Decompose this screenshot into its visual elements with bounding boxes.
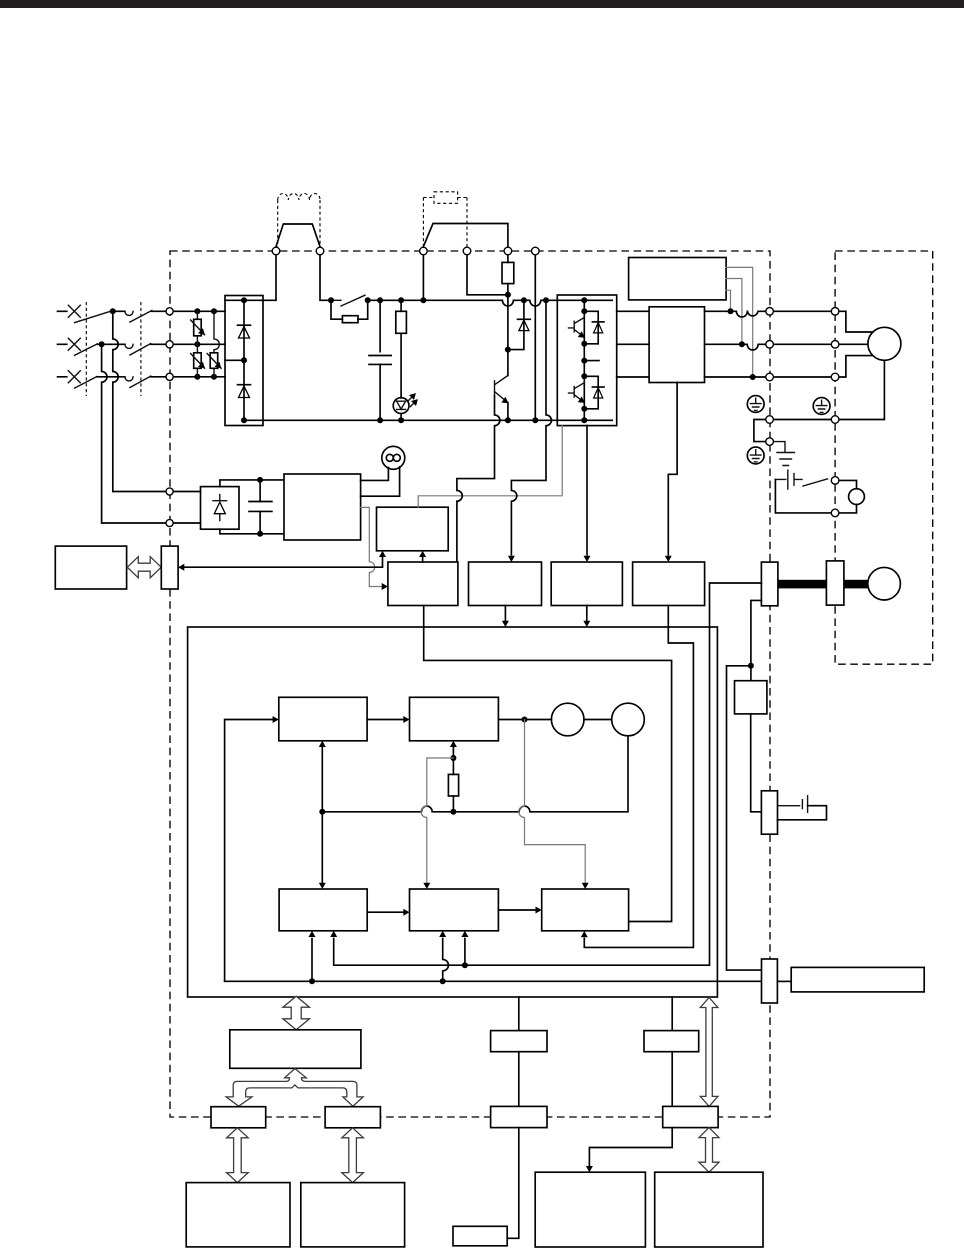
varistor Z3 (R-T, hops S): [207, 311, 221, 377]
bus arrow CN4 to operation box M: [699, 1128, 719, 1173]
wire: lamp lead 1: [361, 468, 389, 481]
wire: tap to block D (hops rail): [421, 758, 453, 883]
display driver box M1: [644, 1031, 699, 1052]
external controller box I: [186, 1183, 290, 1247]
protective earth symbol: [747, 396, 764, 413]
wire: connector to option unit: [777, 980, 791, 982]
wire: block1 output to model block E right side: [424, 606, 672, 922]
option connector CN (bottom right): [762, 959, 778, 1003]
brake terminal B2: [831, 509, 839, 517]
brake switch blade: [803, 479, 828, 486]
wire: control power tap from S (hops T): [102, 344, 167, 523]
wire: current feedback rail to CN output: [225, 980, 762, 982]
arrow: block2 output into controller: [504, 606, 506, 621]
brake terminal B1: [831, 477, 839, 485]
terminal U: [766, 308, 774, 316]
arrow: D to E: [498, 909, 535, 911]
terminal N: [532, 247, 540, 255]
drive block: voltage detection 1: [388, 562, 458, 606]
varistor Z1 (R-S): [191, 311, 205, 344]
external controller box J: [301, 1183, 405, 1247]
interface unit box F: [230, 1030, 361, 1069]
terminal L1: [166, 308, 173, 315]
terminal P1: [272, 247, 280, 255]
varistor Z2 (S-T): [191, 344, 205, 377]
wire: CN2 lower pin to junction: [727, 600, 762, 970]
arrow: block3 output into controller: [586, 606, 588, 621]
terminal V: [766, 341, 774, 349]
protective earth symbol: [747, 447, 764, 464]
wire: K1 to CN3: [518, 1052, 520, 1107]
wire: M1 to CN4: [671, 1052, 673, 1107]
wire: DB to U line: [726, 290, 730, 311]
terminal W: [766, 373, 774, 381]
inrush relay contact on + bus: [331, 295, 368, 306]
wire: rail up to block A input: [225, 720, 273, 982]
charge lamp: [382, 446, 405, 469]
multiplier circle 1: [551, 703, 584, 736]
terminal P2: [316, 247, 324, 255]
base driver / overcurrent protection box: [377, 507, 449, 551]
terminal PE (amp): [766, 416, 774, 424]
P1-P2 jumper bar: [276, 224, 320, 247]
backup battery: [778, 796, 808, 813]
IGBT power module: [557, 295, 616, 426]
node: bus voltage sense tap: [543, 297, 549, 303]
node: A output on rail: [319, 809, 325, 815]
node: R phase junction: [110, 308, 116, 314]
control block E: [542, 889, 629, 931]
wire: battery box to battery connector: [751, 714, 762, 812]
wire: bus voltage sense to detector (hops - bus, gate line): [511, 300, 551, 555]
encoder cable (amp side): [778, 580, 827, 589]
control block B: [410, 697, 499, 741]
varistor network junction dots: [194, 308, 200, 314]
page header bar: [0, 0, 964, 8]
wire: phases into terminals L1 L2 L3: [151, 311, 225, 377]
terminal L21 (control power): [166, 519, 173, 526]
IGBT T2: [569, 383, 585, 403]
wire: controller to display driver: [671, 997, 673, 1031]
wire: CN3 to external device: [507, 1128, 519, 1239]
protective earth symbol: [813, 398, 830, 415]
IGBT T1: [569, 318, 585, 338]
wire: encoder feedback rail: [334, 583, 762, 965]
bus arrow CN1A to controller I: [227, 1128, 249, 1183]
charge LED indicator: [393, 393, 418, 420]
wire: B tap to block E (hops rail): [519, 720, 585, 883]
node: DB-V junction: [739, 341, 745, 347]
control power rectifier: [201, 487, 240, 530]
terminal PE2 (amp): [766, 438, 774, 446]
node: encoder rail tap: [462, 962, 468, 968]
external options dashed boundary (right): [835, 251, 933, 664]
wire: module gate line to base driver: [418, 426, 562, 508]
wire: motor V lead: [835, 343, 868, 345]
node: rail tap D: [440, 978, 446, 984]
wire: motor earth lead: [770, 360, 885, 419]
gain resistor: [448, 758, 458, 812]
wire: motor W lead: [835, 356, 873, 377]
connector CN1B: [325, 1107, 380, 1128]
wire: U phase to terminal (hops DB drops): [705, 311, 836, 317]
servo amplifier dashed boundary: [170, 251, 770, 1117]
wire: feedback rail mid (hops two gray drops): [322, 736, 628, 812]
wire: control DC rails: [220, 480, 284, 534]
wire: V phase to terminal (hops DB drop): [705, 344, 836, 350]
node: DB-W junction: [750, 374, 756, 380]
MC contact blades: [130, 311, 152, 388]
arrow: rail branch up into B: [452, 748, 454, 759]
diode bridge rectifier: [225, 296, 263, 426]
wire: circle1 to circle2: [584, 719, 612, 721]
freewheel diode over regen transistor: [508, 297, 530, 349]
wire: A down to block C (arrowheads both ends): [321, 741, 323, 883]
switching power supply box: [284, 474, 361, 540]
wire: T phase to MC: [97, 376, 125, 378]
node: relay right: [365, 297, 371, 303]
wire: P3 terminal to + bus: [422, 255, 424, 300]
arrow: C to D: [367, 911, 403, 913]
inrush resistor bypass: [331, 300, 368, 322]
wire: lamp lead 2: [361, 467, 400, 496]
wire: battery loop: [778, 806, 827, 820]
wire: junction down to battery circuit box: [750, 666, 752, 681]
connector CN3: [491, 1106, 547, 1127]
servo motor: [868, 327, 901, 360]
wire: current detector output down: [668, 383, 677, 555]
wire: P2 down to DC bus: [320, 255, 331, 300]
terminal C: [463, 247, 471, 255]
arrow: rail into D bottom (hops encoder rail): [443, 939, 449, 982]
main smoothing capacitor: [369, 297, 391, 423]
control block A (command processing): [279, 697, 367, 741]
flyback diode D1: [584, 311, 604, 344]
terminal L2: [166, 341, 173, 348]
operation section box M: [655, 1172, 763, 1247]
control block D: [410, 889, 499, 931]
regenerative transistor Q1: [495, 350, 511, 424]
wire: module U output: [617, 310, 649, 312]
forked bus arrow to I/O connectors: [226, 1069, 363, 1107]
encoder cable (motor side): [844, 580, 868, 589]
node: DB-U junction: [728, 308, 734, 314]
terminal L3: [166, 373, 173, 380]
connector CN4: [663, 1106, 718, 1127]
wire: B output to multipliers: [498, 719, 551, 721]
wire: W phase to terminal: [705, 376, 836, 378]
wire: terminals to control rectifier: [173, 492, 200, 524]
tall bus arrow controller to CN4: [700, 998, 718, 1107]
digital interface box: [55, 546, 126, 589]
bus arrow CN1B to controller J: [342, 1128, 364, 1183]
wire: C terminal to resistor low end: [467, 255, 508, 295]
drive block: base drive: [551, 562, 622, 606]
drive block: voltage detection 2: [469, 562, 542, 606]
option reactor dashed box (P1-P2): [278, 194, 320, 248]
NFB breaker blades: [75, 311, 112, 388]
wire: brake loop left: [775, 479, 831, 513]
flyback diode D2: [584, 376, 604, 409]
arrow: encoder rail into D: [464, 939, 466, 966]
wire: N terminal drop to - bus (hops + bus): [534, 255, 536, 420]
PE jumper bracket: [754, 420, 770, 442]
display box L: [535, 1172, 645, 1247]
wire: brake coil connection: [839, 480, 857, 513]
option regenerative unit dashed box (P-C): [423, 192, 467, 247]
node: resistor bottom on rail: [450, 809, 456, 815]
node: S phase junction: [99, 341, 105, 347]
node: rail tap C: [309, 978, 315, 984]
encoder connector (motor side): [826, 561, 844, 605]
connector CN2: [761, 562, 778, 606]
multiplier circle 2: [612, 703, 645, 736]
fuse symbols (X) on supply lines: [68, 305, 80, 383]
wire: module gate stub to block3: [586, 426, 588, 555]
arrow: rail into C bottom: [311, 939, 313, 982]
module midpoint stub: [584, 360, 599, 362]
arrowheads into drive blocks: [508, 556, 515, 562]
wire: controller to CN3 chain: [518, 997, 520, 1031]
arrow: block1 to base driver: [422, 555, 424, 563]
drive block: current detection: [633, 562, 705, 606]
node: encoder splitter junction: [748, 663, 754, 669]
wire: block4 (current) output to block E bottom: [584, 606, 693, 948]
external device box (small): [453, 1226, 507, 1246]
encoder: [868, 567, 901, 600]
node: B output tap: [522, 717, 528, 723]
arrow: A to B: [367, 719, 403, 721]
wire: DB to V line: [726, 279, 742, 345]
MC gang dashed link: [140, 302, 142, 396]
wire: CN4 to display box L: [589, 1128, 672, 1166]
wire: motor U lead: [835, 311, 873, 332]
module internal DC link: [583, 300, 585, 420]
absolute position battery circuit box: [735, 681, 767, 714]
regenerative resistor (internal): [396, 297, 407, 423]
wire: three-phase supply lead-ins: [58, 311, 67, 377]
current detector box: [649, 307, 704, 383]
MC contact seats (hooks): [125, 311, 133, 381]
wire: S phase to MC: [98, 343, 125, 345]
module chain junction dots: [581, 297, 587, 303]
chassis ground: [773, 442, 794, 466]
interface bidirectional bus arrow: [127, 557, 161, 578]
control block C: [279, 889, 367, 931]
controller-interface bus arrow: [283, 996, 310, 1030]
wire: power supply to base drive enable (hops interface line): [361, 507, 382, 586]
dynamic brake circuit box: [629, 258, 727, 300]
brake power battery: [775, 470, 802, 489]
motor terminal PE: [831, 416, 839, 424]
motor terminal W: [831, 373, 839, 381]
motor terminal V: [831, 341, 839, 349]
terminal D(P3): [420, 247, 428, 255]
wire: module V output: [617, 343, 649, 345]
wire: regen transistor base drive (hops - bus and gate line): [457, 396, 500, 562]
regenerative brake resistor (P-C): [502, 255, 514, 353]
node: relay left: [328, 297, 334, 303]
connector CN1A: [211, 1107, 266, 1128]
terminal L11 (control power): [166, 488, 173, 495]
node: B input tap: [450, 755, 456, 761]
jumper link P3 to P over options: [423, 224, 508, 247]
wire: DB to W line: [726, 267, 753, 377]
motor terminal U: [831, 308, 839, 316]
connector CN1: [161, 546, 178, 589]
comm driver box K1: [491, 1031, 547, 1052]
wire: - DC bus (hops regen base and sense lines): [244, 419, 612, 421]
NFB gang dashed link: [85, 302, 87, 396]
wire: module W output: [617, 376, 649, 378]
wire: R phase to MC: [113, 310, 125, 312]
wire: command line CN1 to base drive (double arrowheads): [184, 556, 383, 568]
main controller block boundary: [188, 627, 718, 997]
battery connector CN: [761, 791, 777, 834]
wire: + DC bus (hops at P and N drops): [368, 300, 613, 306]
wire: control power tap from R (hops S,T): [113, 311, 166, 491]
wire: rectifier + up to terminal P1: [263, 255, 276, 300]
electromagnetic brake coil: [849, 489, 865, 505]
option unit box: [791, 967, 924, 992]
terminal P: [504, 247, 512, 255]
control smoothing capacitor: [249, 477, 272, 537]
